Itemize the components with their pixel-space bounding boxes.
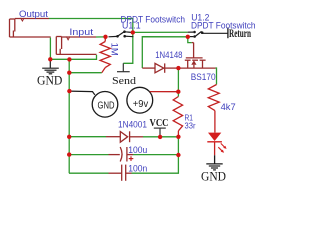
label caret Output [21,18,25,21]
svg-text:Output: Output [19,9,49,19]
connector circle GND [92,92,118,118]
wire left ground rail [68,59,70,173]
wire VCC row green [143,136,178,138]
LED arrows [218,143,226,152]
svg-text:GND: GND [98,99,115,111]
resistor R3 bottom lead [214,111,216,133]
svg-text:100u: 100u [128,145,147,155]
switch U1.1 [109,30,134,37]
wire U1.1 upper throw to U1.2 upper throw [133,31,188,33]
svg-text:Input: Input [69,27,93,37]
junction dots [48,30,190,157]
LED D3 [208,133,221,141]
wire to Send pin [123,32,133,63]
wire 100n row left [69,172,109,174]
diode D1 1N4001 [106,131,143,142]
svg-text:1N4001: 1N4001 [118,120,147,130]
wire +9v to node [150,91,179,93]
wire 100n row right and right rail [132,137,179,173]
resistor R3 4k7 [208,85,219,111]
wire 1M bottom tie [69,72,102,74]
LED cathode lead [214,142,216,155]
connector output jack J1 [10,19,51,38]
wire gate node vertical [177,68,179,97]
capacitor C1 plus sign [129,156,134,161]
svg-text:+9v: +9v [133,99,148,110]
svg-text:1N4148: 1N4148 [155,50,182,60]
connector circle +9v [127,87,153,113]
wire Input net [96,36,106,38]
diode D2 1N4148 [142,63,178,72]
svg-text:U1.1: U1.1 [122,20,141,30]
svg-text:Send: Send [112,75,137,87]
wire output jack sleeve down [49,38,51,60]
svg-text:BS170: BS170 [191,72,216,82]
wire ground bus horizontal [50,55,96,59]
pin Send [117,63,130,71]
ground symbol right [206,164,222,170]
svg-text:4k7: 4k7 [221,102,236,113]
pin Return [227,28,229,39]
wire Q1 source corner [216,68,217,85]
wire 100u row right [133,154,178,156]
label caret Input [66,37,69,40]
svg-text:33r: 33r [185,121,196,131]
svg-text:VCC: VCC [150,117,169,129]
wire U1.2 lower throw to Q1 drain [188,37,192,43]
connector input jack J2 [56,37,96,55]
pin VCC [154,128,166,137]
resistor R2 1M [104,37,106,42]
capacitor C2 100n [109,165,132,181]
svg-text:1M: 1M [108,43,119,56]
svg-text:100n: 100n [128,163,147,173]
wire node to U1.2 lower throw [142,37,188,68]
wire Output net top [49,19,133,33]
ground symbol left [42,59,59,74]
resistor R1 33r [173,97,182,131]
switch U1.2 [188,31,228,38]
transistor Q1 BS170 [178,43,215,69]
svg-text:GND: GND [201,168,226,183]
svg-text:Return: Return [229,28,251,40]
capacitor C1 100u [109,147,134,162]
wire VCC row left green [69,136,106,138]
wire 100u row left [69,154,108,156]
svg-text:GND: GND [37,74,62,88]
